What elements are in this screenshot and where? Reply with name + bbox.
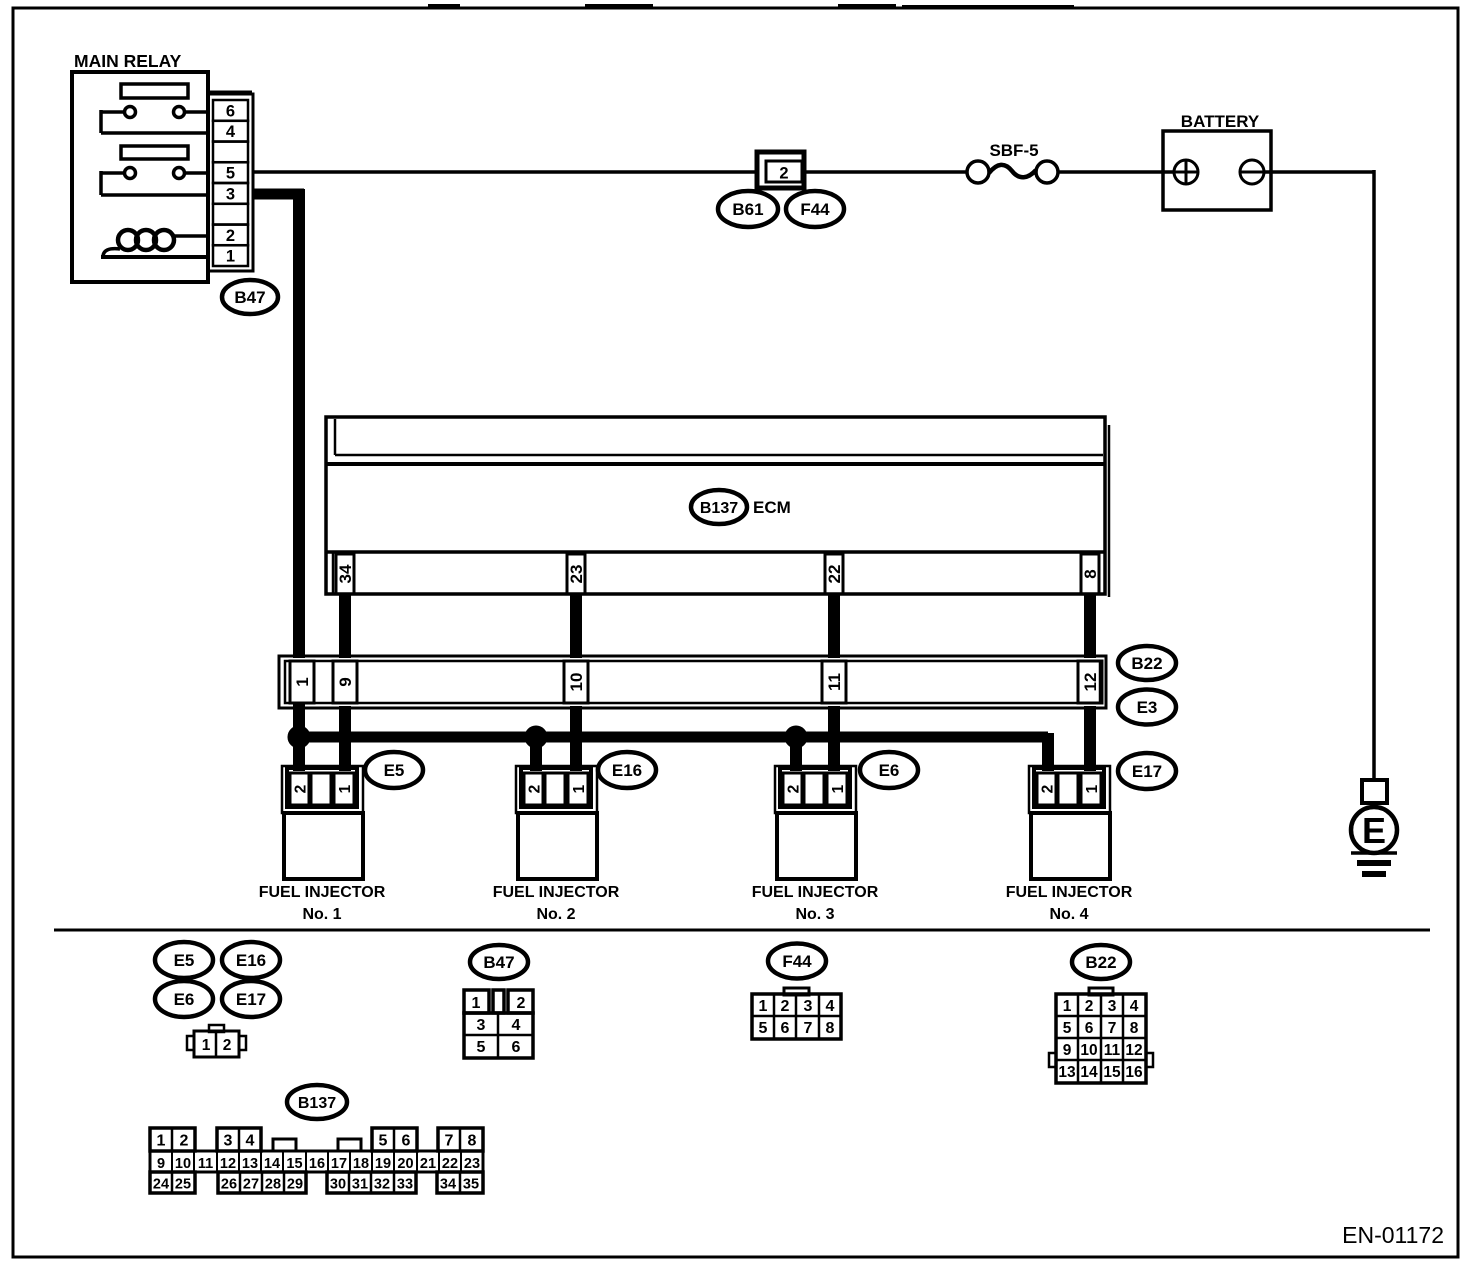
svg-text:35: 35 bbox=[463, 1177, 479, 1193]
svg-text:9: 9 bbox=[157, 1156, 165, 1172]
svg-text:No. 1: No. 1 bbox=[302, 906, 341, 923]
svg-text:5: 5 bbox=[1063, 1020, 1072, 1037]
svg-text:26: 26 bbox=[221, 1177, 237, 1193]
svg-text:B47: B47 bbox=[483, 953, 514, 972]
svg-text:1: 1 bbox=[1063, 998, 1072, 1015]
svg-text:11: 11 bbox=[825, 673, 844, 691]
svg-text:7: 7 bbox=[445, 1133, 454, 1150]
svg-text:25: 25 bbox=[175, 1177, 191, 1193]
svg-text:B47: B47 bbox=[234, 288, 265, 307]
svg-text:18: 18 bbox=[353, 1156, 369, 1172]
svg-text:3: 3 bbox=[226, 185, 235, 203]
svg-text:3: 3 bbox=[224, 1133, 233, 1150]
svg-text:BATTERY: BATTERY bbox=[1181, 112, 1260, 131]
svg-text:5: 5 bbox=[226, 165, 235, 183]
svg-text:9: 9 bbox=[336, 677, 355, 686]
svg-text:1: 1 bbox=[571, 784, 588, 793]
svg-text:2: 2 bbox=[786, 785, 803, 794]
svg-text:10: 10 bbox=[1080, 1042, 1097, 1059]
svg-text:23: 23 bbox=[464, 1156, 480, 1172]
svg-text:F44: F44 bbox=[782, 952, 812, 971]
svg-text:8: 8 bbox=[1130, 1020, 1139, 1037]
svg-text:34: 34 bbox=[336, 564, 355, 583]
svg-text:No. 4: No. 4 bbox=[1049, 906, 1088, 923]
svg-text:F44: F44 bbox=[800, 200, 830, 219]
svg-text:No. 3: No. 3 bbox=[795, 906, 834, 923]
svg-text:1: 1 bbox=[1084, 784, 1101, 793]
svg-text:9: 9 bbox=[1063, 1042, 1072, 1059]
svg-text:4: 4 bbox=[226, 123, 236, 141]
svg-text:2: 2 bbox=[781, 998, 790, 1015]
svg-text:14: 14 bbox=[1080, 1064, 1098, 1081]
svg-text:11: 11 bbox=[198, 1156, 213, 1172]
svg-text:4: 4 bbox=[246, 1133, 255, 1150]
svg-text:4: 4 bbox=[512, 1017, 521, 1034]
svg-text:23: 23 bbox=[567, 565, 586, 584]
svg-text:2: 2 bbox=[293, 785, 310, 794]
svg-text:15: 15 bbox=[1103, 1064, 1121, 1081]
svg-text:1: 1 bbox=[226, 248, 235, 266]
svg-text:5: 5 bbox=[477, 1039, 486, 1056]
svg-text:E17: E17 bbox=[236, 990, 266, 1009]
svg-text:E: E bbox=[1362, 810, 1386, 851]
svg-text:E3: E3 bbox=[1137, 698, 1158, 717]
svg-text:E5: E5 bbox=[384, 761, 405, 780]
svg-text:1: 1 bbox=[293, 677, 312, 686]
svg-text:6: 6 bbox=[512, 1039, 521, 1056]
svg-text:E16: E16 bbox=[236, 951, 266, 970]
svg-text:34: 34 bbox=[440, 1177, 456, 1193]
svg-text:FUEL INJECTOR: FUEL INJECTOR bbox=[752, 884, 879, 901]
svg-text:7: 7 bbox=[1108, 1020, 1117, 1037]
svg-text:6: 6 bbox=[1085, 1020, 1094, 1037]
svg-text:1: 1 bbox=[472, 995, 481, 1012]
svg-text:31: 31 bbox=[352, 1177, 368, 1193]
svg-text:2: 2 bbox=[226, 227, 235, 245]
svg-text:33: 33 bbox=[397, 1177, 413, 1193]
svg-text:3: 3 bbox=[1108, 998, 1117, 1015]
svg-text:22: 22 bbox=[442, 1156, 458, 1172]
svg-text:3: 3 bbox=[804, 998, 813, 1015]
svg-text:2: 2 bbox=[223, 1037, 232, 1054]
svg-text:B22: B22 bbox=[1085, 953, 1116, 972]
svg-text:15: 15 bbox=[286, 1156, 302, 1172]
svg-text:21: 21 bbox=[420, 1156, 436, 1172]
svg-text:E5: E5 bbox=[174, 951, 195, 970]
svg-text:16: 16 bbox=[309, 1156, 325, 1172]
svg-text:11: 11 bbox=[1104, 1042, 1121, 1059]
svg-text:B22: B22 bbox=[1131, 654, 1162, 673]
svg-text:B61: B61 bbox=[732, 200, 763, 219]
svg-text:2: 2 bbox=[180, 1133, 189, 1150]
svg-text:2: 2 bbox=[527, 785, 544, 794]
svg-text:1: 1 bbox=[759, 998, 768, 1015]
svg-text:E17: E17 bbox=[1132, 762, 1162, 781]
svg-text:3: 3 bbox=[477, 1017, 486, 1034]
svg-text:30: 30 bbox=[330, 1177, 346, 1193]
svg-text:4: 4 bbox=[1130, 998, 1139, 1015]
svg-text:FUEL INJECTOR: FUEL INJECTOR bbox=[259, 884, 386, 901]
svg-text:2: 2 bbox=[1040, 785, 1057, 794]
svg-text:E6: E6 bbox=[879, 761, 900, 780]
svg-text:19: 19 bbox=[375, 1156, 391, 1172]
svg-text:5: 5 bbox=[379, 1133, 388, 1150]
svg-text:8: 8 bbox=[826, 1020, 835, 1037]
svg-text:FUEL INJECTOR: FUEL INJECTOR bbox=[1006, 884, 1133, 901]
svg-text:8: 8 bbox=[1081, 569, 1100, 578]
svg-text:SBF-5: SBF-5 bbox=[989, 141, 1038, 160]
svg-text:MAIN RELAY: MAIN RELAY bbox=[74, 51, 182, 71]
svg-text:20: 20 bbox=[397, 1156, 413, 1172]
svg-text:No. 2: No. 2 bbox=[536, 906, 575, 923]
svg-text:EN-01172: EN-01172 bbox=[1342, 1222, 1444, 1248]
svg-text:6: 6 bbox=[781, 1020, 790, 1037]
svg-text:2: 2 bbox=[517, 995, 526, 1012]
svg-text:17: 17 bbox=[331, 1156, 347, 1172]
svg-text:29: 29 bbox=[287, 1177, 303, 1193]
svg-text:10: 10 bbox=[175, 1156, 191, 1172]
svg-text:1: 1 bbox=[830, 784, 847, 793]
svg-text:24: 24 bbox=[153, 1177, 169, 1193]
svg-text:E6: E6 bbox=[174, 990, 195, 1009]
svg-text:13: 13 bbox=[1058, 1064, 1076, 1081]
svg-text:5: 5 bbox=[759, 1020, 768, 1037]
svg-text:8: 8 bbox=[468, 1133, 477, 1150]
svg-text:4: 4 bbox=[826, 998, 835, 1015]
svg-text:2: 2 bbox=[1085, 998, 1094, 1015]
svg-text:32: 32 bbox=[374, 1177, 390, 1193]
svg-text:22: 22 bbox=[825, 565, 844, 584]
svg-text:7: 7 bbox=[804, 1020, 813, 1037]
svg-text:14: 14 bbox=[264, 1156, 280, 1172]
svg-text:10: 10 bbox=[567, 673, 586, 692]
svg-text:27: 27 bbox=[243, 1177, 259, 1193]
svg-text:12: 12 bbox=[220, 1156, 236, 1172]
svg-text:12: 12 bbox=[1081, 673, 1100, 692]
svg-text:13: 13 bbox=[242, 1156, 258, 1172]
svg-text:1: 1 bbox=[202, 1037, 211, 1054]
svg-text:B137: B137 bbox=[298, 1095, 336, 1112]
svg-text:B137: B137 bbox=[700, 500, 738, 517]
svg-text:12: 12 bbox=[1125, 1042, 1142, 1059]
svg-text:1: 1 bbox=[157, 1133, 166, 1150]
svg-text:ECM: ECM bbox=[753, 498, 791, 517]
svg-text:1: 1 bbox=[337, 784, 354, 793]
svg-text:6: 6 bbox=[402, 1133, 411, 1150]
svg-text:28: 28 bbox=[265, 1177, 281, 1193]
svg-text:16: 16 bbox=[1125, 1064, 1143, 1081]
svg-text:6: 6 bbox=[226, 102, 235, 120]
svg-text:FUEL INJECTOR: FUEL INJECTOR bbox=[493, 884, 620, 901]
svg-text:E16: E16 bbox=[612, 761, 642, 780]
svg-text:2: 2 bbox=[779, 165, 788, 183]
